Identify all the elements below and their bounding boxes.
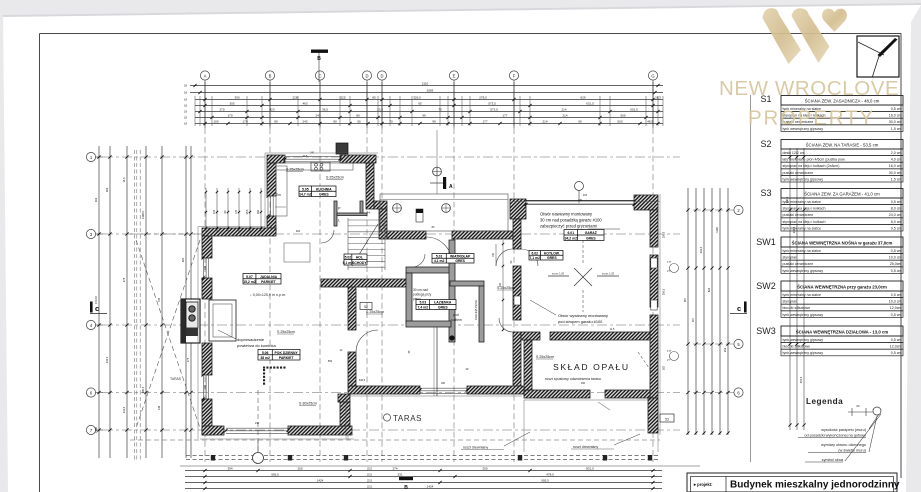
svg-text:30,0 cm: 30,0 cm (889, 120, 902, 124)
svg-text:162: 162 (663, 365, 666, 370)
svg-text:S 25x25cm: S 25x25cm (286, 168, 304, 172)
svg-text:363: 363 (105, 187, 109, 192)
svg-text:xxxxx 1,05: xxxxx 1,05 (552, 272, 565, 276)
svg-text:24,5: 24,5 (303, 155, 308, 158)
svg-text:243: 243 (302, 119, 307, 123)
svg-text:0,5 cm: 0,5 cm (891, 107, 902, 111)
svg-text:243: 243 (315, 113, 320, 117)
svg-text:240: 240 (255, 422, 260, 425)
svg-text:0,5 cm: 0,5 cm (891, 293, 902, 297)
svg-text:KOTŁOW.: KOTŁOW. (544, 251, 560, 255)
svg-text:85: 85 (372, 95, 376, 99)
svg-text:SW1: SW1 (756, 237, 776, 247)
svg-text:250,5: 250,5 (663, 231, 666, 238)
svg-text:292: 292 (723, 347, 727, 352)
svg-text:tynk mineralny na siatce: tynk mineralny na siatce (783, 200, 822, 204)
svg-text:Z: Z (367, 211, 371, 213)
svg-text:S3: S3 (760, 188, 771, 198)
svg-text:1424: 1424 (317, 478, 324, 482)
svg-text:100: 100 (297, 466, 302, 470)
svg-text:12,0cm: 12,0cm (890, 306, 902, 310)
svg-text:206,5: 206,5 (663, 288, 666, 295)
svg-text:styropian na kleju i kołkach: styropian na kleju i kołkach (783, 207, 826, 211)
svg-text:4714,5: 4714,5 (94, 295, 98, 303)
svg-text:symbol okna: symbol okna (822, 458, 844, 462)
svg-text:478,5: 478,5 (546, 472, 554, 476)
svg-text:331: 331 (397, 472, 402, 476)
svg-text:905,5: 905,5 (271, 472, 279, 476)
svg-text:PARKIET: PARKIET (279, 356, 295, 360)
svg-text:10,0 cm: 10,0 cm (889, 256, 902, 260)
svg-text:c: c (737, 304, 741, 313)
svg-text:0,5 cm: 0,5 cm (891, 313, 902, 317)
svg-text:22,5: 22,5 (367, 485, 373, 489)
svg-text:146: 146 (157, 405, 161, 410)
svg-text:styropian: styropian (783, 256, 798, 260)
svg-text:203,5: 203,5 (699, 246, 703, 253)
svg-text:bloczki silikatowe: bloczki silikatowe (783, 306, 811, 310)
svg-text:99: 99 (422, 113, 426, 117)
svg-text:824: 824 (707, 287, 711, 292)
svg-text:pustaki ceramiczne: pustaki ceramiczne (783, 213, 814, 217)
svg-text:PROPERTY: PROPERTY (748, 107, 875, 130)
svg-text:631,5: 631,5 (586, 101, 594, 105)
svg-text:245: 245 (499, 282, 502, 287)
svg-text:Zm: Zm (276, 193, 281, 197)
svg-text:629: 629 (580, 95, 585, 99)
svg-text:0,5 cm: 0,5 cm (891, 200, 902, 204)
svg-text:SW3: SW3 (756, 326, 776, 336)
svg-text:styropian na kleju i kołkach: styropian na kleju i kołkach (783, 220, 826, 224)
svg-text:GRES: GRES (547, 256, 557, 260)
svg-text:346,5: 346,5 (359, 379, 366, 382)
svg-text:1,5 cm: 1,5 cm (891, 127, 902, 131)
svg-text:270: 270 (219, 107, 224, 111)
svg-text:100: 100 (213, 119, 218, 123)
svg-text:213,5: 213,5 (122, 406, 126, 413)
svg-text:52: 52 (364, 305, 368, 309)
svg-text:bloczki silikatowe: bloczki silikatowe (783, 345, 811, 349)
svg-text:24,0 cm: 24,0 cm (889, 213, 902, 217)
svg-text:tynk mineralny na siatce: tynk mineralny na siatce (783, 293, 822, 297)
svg-text:263: 263 (296, 230, 301, 233)
svg-text:219,5: 219,5 (105, 356, 109, 363)
svg-text:905,5: 905,5 (541, 478, 549, 482)
svg-text:ruszt drewniany: ruszt drewniany (573, 445, 598, 449)
svg-text:225: 225 (340, 95, 345, 99)
svg-text:36,5: 36,5 (322, 107, 328, 111)
svg-text:doprowadzenie: doprowadzenie (237, 337, 265, 342)
svg-text:2083: 2083 (427, 88, 434, 92)
svg-text:228: 228 (292, 95, 297, 99)
svg-text:38 m2: 38 m2 (260, 356, 270, 360)
svg-text:deski 12/2 cm: deski 12/2 cm (783, 151, 805, 155)
svg-text:ruszt spustowy odwodnienia tar: ruszt spustowy odwodnienia tarasu (545, 377, 601, 381)
svg-text:120: 120 (204, 265, 207, 270)
svg-text:177: 177 (667, 260, 672, 264)
svg-text:S 25x25cm: S 25x25cm (277, 330, 295, 334)
svg-text:30,0 cm: 30,0 cm (889, 171, 902, 175)
svg-text:ŚCIANA WEWNĘTRZNA przy garażu: ŚCIANA WEWNĘTRZNA przy garażu 23,0cm (797, 284, 887, 289)
svg-text:D: D (365, 73, 368, 78)
svg-text:5.03: 5.03 (419, 301, 426, 305)
svg-text:367: 367 (683, 297, 687, 302)
svg-text:tynk wewnętrzny gipsowy: tynk wewnętrzny gipsowy (783, 338, 824, 342)
svg-text:4,1 m2: 4,1 m2 (434, 259, 445, 263)
svg-text:500: 500 (620, 113, 625, 117)
svg-text:11,5: 11,5 (610, 328, 615, 331)
svg-text:13,5: 13,5 (377, 107, 383, 111)
svg-text:302: 302 (94, 197, 98, 202)
svg-text:2110: 2110 (422, 81, 429, 85)
svg-text:22,5: 22,5 (367, 473, 373, 477)
svg-text:Budynek mieszkalny jednorodzi: Budynek mieszkalny jednorodzinny (730, 480, 900, 491)
svg-text:80: 80 (356, 113, 360, 117)
svg-text:PARKIET: PARKIET (261, 280, 277, 284)
svg-text:573,5: 573,5 (488, 101, 496, 105)
svg-text:pustaki ceramiczne: pustaki ceramiczne (783, 262, 814, 266)
svg-text:380,5: 380,5 (141, 386, 145, 393)
svg-text:35,5: 35,5 (246, 209, 249, 214)
svg-text:xxxxx 1,05: xxxxx 1,05 (602, 272, 615, 276)
svg-text:TARAS: TARAS (170, 377, 182, 381)
svg-text:175: 175 (186, 357, 190, 362)
svg-text:65: 65 (357, 119, 361, 123)
svg-text:NEW WROCLOVE: NEW WROCLOVE (719, 77, 899, 100)
svg-text:tynk mineralny na siatce: tynk mineralny na siatce (783, 226, 822, 230)
svg-text:463: 463 (302, 101, 307, 105)
svg-text:KUCHNIA: KUCHNIA (316, 187, 332, 191)
svg-text:0,5 cm: 0,5 cm (891, 269, 902, 273)
svg-text:214: 214 (561, 107, 566, 111)
svg-text:150: 150 (581, 382, 586, 385)
svg-text:ŚCIANA ZEW. NA TARASIE - 53,: ŚCIANA ZEW. NA TARASIE - 53,5 cm (806, 142, 879, 147)
svg-text:300: 300 (234, 95, 239, 99)
svg-text:6.02: 6.02 (531, 251, 538, 255)
svg-text:c: c (95, 304, 99, 313)
svg-text:wysokość parapetu (muru): wysokość parapetu (muru) (821, 428, 866, 432)
svg-text:170: 170 (235, 209, 238, 214)
svg-text:F: F (513, 73, 516, 78)
svg-text:TARAS: TARAS (393, 414, 422, 423)
svg-text:SW2: SW2 (756, 281, 776, 291)
svg-text:piecu: piecu (413, 297, 421, 301)
svg-text:GRES: GRES (438, 306, 448, 310)
svg-text:0,5 cm: 0,5 cm (891, 226, 902, 230)
svg-text:4,0 cm: 4,0 cm (891, 158, 902, 162)
svg-text:65: 65 (418, 101, 422, 105)
svg-text:łaty drewniane pion 4/6cm (pus: łaty drewniane pion 4/6cm (pustka pow. (783, 158, 846, 162)
svg-text:7,4 m2: 7,4 m2 (418, 306, 429, 310)
svg-text:12,0cm: 12,0cm (890, 345, 902, 349)
svg-text:278,5: 278,5 (479, 95, 487, 99)
svg-text:177: 177 (482, 119, 487, 123)
svg-text:pustaki ceramiczne: pustaki ceramiczne (783, 171, 814, 175)
svg-text:14,7 m2: 14,7 m2 (299, 193, 312, 197)
svg-text:1424: 1424 (427, 484, 434, 488)
svg-text:GRES: GRES (586, 237, 596, 241)
svg-text:8,0 cm: 8,0 cm (891, 207, 902, 211)
svg-text:S2: S2 (760, 139, 771, 149)
svg-text:B: B (404, 485, 408, 491)
svg-text:7,1 m2: 7,1 m2 (529, 256, 540, 260)
svg-text:sufitem: sufitem (451, 318, 462, 322)
svg-text:214: 214 (562, 113, 567, 117)
svg-text:14,5: 14,5 (122, 177, 126, 183)
svg-text:1398,5: 1398,5 (141, 210, 145, 218)
svg-text:tynk wewnętrzny gipsowy: tynk wewnętrzny gipsowy (783, 351, 824, 355)
svg-text:powietrza do kominka: powietrza do kominka (237, 343, 276, 348)
svg-text:A: A (449, 184, 453, 190)
svg-text:167: 167 (691, 317, 695, 322)
svg-text:53: 53 (665, 418, 669, 422)
svg-text:2,0 cm: 2,0 cm (891, 151, 902, 155)
svg-text:25,0cm: 25,0cm (890, 262, 902, 266)
svg-text:48,5: 48,5 (647, 119, 653, 123)
svg-text:B: B (269, 73, 272, 78)
svg-text:103: 103 (583, 194, 588, 197)
svg-text:WIATROŁAP: WIATROŁAP (450, 254, 471, 258)
svg-text:A: A (204, 73, 207, 78)
svg-text:0,5 cm: 0,5 cm (891, 249, 902, 253)
svg-text:tynk mineralny na siatce: tynk mineralny na siatce (783, 249, 822, 253)
svg-text:22,5: 22,5 (367, 479, 373, 483)
svg-text:394: 394 (227, 466, 232, 470)
svg-text:6.01: 6.01 (567, 231, 574, 235)
svg-text:243: 243 (213, 209, 216, 214)
svg-text:0,5 cm: 0,5 cm (891, 351, 902, 355)
svg-text:S 25x25cm: S 25x25cm (326, 176, 344, 180)
svg-text:8,0 cm: 8,0 cm (891, 220, 902, 224)
svg-text:30 cm nad: 30 cm nad (413, 288, 428, 292)
svg-text:177: 177 (667, 349, 672, 353)
svg-text:476: 476 (122, 277, 126, 282)
svg-text:1388: 1388 (94, 427, 98, 433)
svg-text:pod stropem garażu #100: pod stropem garażu #100 (558, 319, 603, 324)
svg-text:GRES: GRES (455, 259, 465, 263)
svg-text:423: 423 (269, 107, 274, 111)
svg-text:152: 152 (492, 252, 495, 257)
svg-text:34,2 m2: 34,2 m2 (565, 237, 578, 241)
svg-text:326,5: 326,5 (413, 95, 421, 99)
svg-text:5.05: 5.05 (302, 187, 309, 191)
svg-text:0,5 cm: 0,5 cm (891, 338, 902, 342)
svg-text:CAŁUNA PIŁSA: CAŁUNA PIŁSA (474, 300, 478, 320)
svg-text:820: 820 (181, 257, 185, 262)
svg-text:16,0 cm: 16,0 cm (889, 114, 902, 118)
svg-text:15,2 m2: 15,2 m2 (243, 280, 256, 284)
svg-text:podłogą przy: podłogą przy (413, 293, 432, 297)
svg-text:Otwór nawiewny montowany: Otwór nawiewny montowany (540, 212, 593, 217)
svg-text:GRES: GRES (319, 193, 329, 197)
svg-text:↓ 0,00=125,9 m n.p.m.: ↓ 0,00=125,9 m n.p.m. (250, 293, 286, 297)
svg-text:Otwór wywiewny montowany: Otwór wywiewny montowany (558, 313, 608, 318)
svg-text:wymiary otworu okiennego: wymiary otworu okiennego (821, 443, 866, 447)
svg-text:D: D (380, 73, 383, 78)
svg-text:S 25x25cm: S 25x25cm (536, 355, 554, 359)
svg-text:(w świetle muru): (w świetle muru) (838, 449, 866, 453)
svg-text:L: L (338, 219, 340, 223)
svg-text:HOL: HOL (356, 256, 363, 260)
svg-text:ŚCIANA WEWNĘTRZNA NOŚNA w gara: ŚCIANA WEWNĘTRZNA NOŚNA w garażu 37,0cm (792, 240, 893, 245)
svg-text:JADALNIA: JADALNIA (260, 275, 278, 279)
svg-text:►projekt:: ►projekt: (693, 482, 713, 487)
svg-text:SKŁAD OPAŁU: SKŁAD OPAŁU (553, 362, 630, 372)
svg-text:5.06: 5.06 (262, 351, 269, 355)
svg-text:212: 212 (350, 297, 353, 302)
svg-text:180: 180 (204, 384, 207, 389)
svg-text:tynk wewnętrzny gipsowy: tynk wewnętrzny gipsowy (783, 269, 824, 273)
svg-text:styropian: styropian (783, 300, 798, 304)
svg-text:ŚCIANA WEWNĘTRZNA DZIAŁOWA - 1: ŚCIANA WEWNĘTRZNA DZIAŁOWA - 13,0 cm (796, 329, 889, 334)
svg-text:177: 177 (502, 113, 507, 117)
svg-text:G: G (651, 73, 654, 78)
svg-text:30 cm nad posadzką garażu #10: 30 cm nad posadzką garażu #100 (540, 218, 602, 223)
svg-text:POK DZIENNY: POK DZIENNY (275, 351, 299, 355)
svg-text:90: 90 (578, 119, 582, 123)
svg-text:18,5: 18,5 (655, 95, 661, 99)
svg-text:70: 70 (389, 119, 393, 123)
svg-text:214: 214 (542, 119, 547, 123)
svg-text:274: 274 (392, 466, 397, 470)
svg-text:10,0 cm: 10,0 cm (889, 300, 902, 304)
svg-text:80: 80 (274, 119, 278, 123)
svg-text:Legenda: Legenda (806, 397, 843, 406)
svg-text:ŚCIANA ZEW. ZA GARAŻEM - 41,: ŚCIANA ZEW. ZA GARAŻEM - 41,0 cm (804, 191, 880, 196)
svg-text:ruszt drewniany: ruszt drewniany (463, 446, 488, 450)
svg-text:22,5: 22,5 (367, 467, 373, 471)
svg-text:tynk wewnętrzny gipsowy: tynk wewnętrzny gipsowy (783, 177, 824, 181)
svg-text:99: 99 (432, 119, 436, 123)
svg-text:735: 735 (157, 297, 161, 302)
svg-text:509: 509 (328, 360, 333, 363)
svg-text:od posadzki wykończonej na got: od posadzki wykończonej na gotowo (804, 434, 866, 438)
svg-text:S 30x25cm: S 30x25cm (299, 402, 317, 406)
svg-text:styropian na kleju i kołkach (: styropian na kleju i kołkach (2x8cm) (783, 164, 840, 168)
svg-text:831,5: 831,5 (586, 466, 594, 470)
svg-text:1,5 cm: 1,5 cm (891, 177, 902, 181)
svg-text:601,5: 601,5 (630, 107, 638, 111)
svg-text:16,0 cm: 16,0 cm (889, 164, 902, 168)
svg-text:E: E (453, 73, 456, 78)
svg-text:170: 170 (227, 113, 232, 117)
svg-text:SCHODY: SCHODY (352, 261, 367, 265)
svg-text:70: 70 (438, 107, 442, 111)
svg-text:80: 80 (333, 119, 337, 123)
svg-text:200: 200 (482, 466, 487, 470)
svg-text:GARAŻ: GARAŻ (585, 231, 597, 235)
svg-text:180: 180 (441, 382, 446, 385)
svg-text:170: 170 (242, 119, 247, 123)
svg-text:1138: 1138 (715, 227, 719, 233)
svg-text:5.02: 5.02 (345, 256, 352, 260)
svg-text:5.07: 5.07 (246, 275, 253, 279)
svg-text:80: 80 (856, 404, 860, 408)
svg-text:pod: pod (453, 313, 459, 317)
svg-text:5.01: 5.01 (436, 254, 443, 258)
svg-text:zabezpieczyć przed gryzoniami: zabezpieczyć przed gryzoniami (540, 224, 597, 229)
svg-text:263: 263 (257, 209, 260, 214)
svg-text:500: 500 (617, 119, 622, 123)
svg-text:S 25x25cm: S 25x25cm (366, 310, 384, 314)
svg-text:tynk wewnętrzny gipsowy: tynk wewnętrzny gipsowy (783, 313, 824, 317)
svg-text:305: 305 (229, 101, 234, 105)
svg-text:351,5: 351,5 (799, 376, 803, 383)
svg-text:573,5: 573,5 (490, 107, 498, 111)
svg-text:ŁAZIENKA: ŁAZIENKA (434, 301, 452, 305)
